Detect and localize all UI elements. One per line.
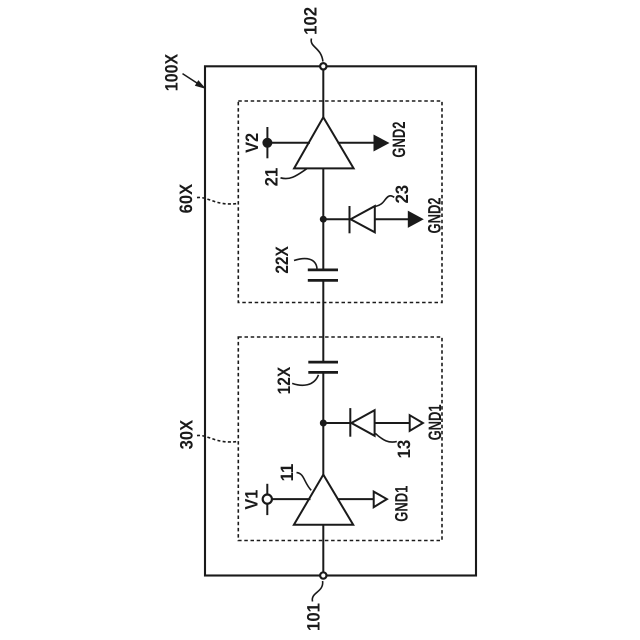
node V2 terminal bar bbox=[266, 127, 268, 158]
node V1 open circle bbox=[263, 495, 272, 504]
terminal 101 bbox=[320, 572, 326, 578]
wire: node B to diode 13 bbox=[323, 422, 350, 424]
svg-text:30X: 30X bbox=[176, 420, 196, 449]
svg-text:11: 11 bbox=[277, 464, 297, 482]
wire: node A to capacitor 22X bbox=[322, 219, 324, 269]
capacitor 12X bbox=[308, 362, 338, 372]
diode 13 cathode bar bbox=[349, 408, 351, 437]
svg-text:12X: 12X bbox=[274, 367, 294, 395]
svg-text:21: 21 bbox=[262, 168, 282, 187]
capacitor 22X bbox=[308, 270, 338, 281]
op-amp 21 bbox=[294, 117, 354, 168]
leader line for label 22X bbox=[294, 259, 317, 269]
leader line for label 11 bbox=[297, 473, 312, 491]
svg-text:102: 102 bbox=[301, 7, 321, 35]
arrow GND1 (open, at op-amp 11) bbox=[374, 492, 387, 508]
node A junction dot bbox=[320, 216, 327, 223]
svg-text:GND2: GND2 bbox=[389, 122, 409, 158]
leader line for label 21 bbox=[281, 169, 308, 179]
svg-text:60X: 60X bbox=[176, 184, 196, 213]
arrow GND2 (filled, at op-amp 21) bbox=[374, 135, 390, 152]
leader line for label 23 bbox=[375, 196, 394, 207]
wire: V1 input to op-amp 11 bbox=[267, 498, 310, 500]
wire: op-amp 21 base to node A bbox=[322, 168, 324, 219]
node V1 terminal bar bbox=[266, 484, 268, 515]
svg-text:V2: V2 bbox=[242, 133, 262, 153]
svg-text:13: 13 bbox=[394, 440, 414, 459]
svg-text:GND2: GND2 bbox=[425, 197, 445, 233]
wire: terminal 102 to op-amp 21 apex bbox=[322, 66, 324, 118]
wire: op-amp 21 output to GND2 arrow bbox=[338, 142, 375, 144]
wire: node A to diode 23 bbox=[323, 218, 349, 220]
arrow GND1 (open, at diode 13) bbox=[410, 415, 423, 431]
wire: op-amp 11 base to terminal 101 bbox=[322, 525, 324, 576]
leader line for label 102 bbox=[311, 39, 323, 62]
wire: V2 input to op-amp 21 bbox=[267, 142, 310, 144]
op-amp 11 bbox=[294, 475, 353, 525]
dashed leader for label 60X bbox=[197, 197, 238, 204]
wire: node B to op-amp 11 apex bbox=[322, 423, 324, 476]
leader line for label 13 bbox=[375, 433, 396, 442]
svg-text:22X: 22X bbox=[272, 246, 292, 274]
node B junction dot bbox=[320, 420, 327, 427]
svg-text:23: 23 bbox=[392, 185, 412, 204]
terminal 102 bbox=[320, 63, 326, 69]
svg-text:GND1: GND1 bbox=[425, 404, 445, 440]
svg-text:100X: 100X bbox=[161, 54, 181, 91]
wire: op-amp 11 output to GND1 arrow bbox=[337, 498, 374, 500]
svg-text:V1: V1 bbox=[242, 490, 262, 510]
svg-text:GND1: GND1 bbox=[392, 486, 412, 522]
node V2 dot bbox=[262, 138, 272, 148]
dashed leader for label 30X bbox=[197, 435, 238, 442]
leader line for label 12X bbox=[292, 375, 318, 385]
diode 23 bbox=[351, 206, 375, 232]
diode 23 cathode bar bbox=[349, 206, 351, 233]
diode 13 bbox=[351, 410, 374, 436]
leader line for label 101 bbox=[312, 581, 322, 602]
outer box 100X bbox=[205, 66, 476, 575]
leader arrow for label 100X bbox=[183, 74, 205, 88]
dashed box 30X bbox=[238, 337, 442, 541]
wire: capacitor 22X to capacitor 12X bbox=[322, 280, 324, 362]
svg-text:101: 101 bbox=[304, 603, 324, 631]
dashed box 60X bbox=[238, 101, 442, 303]
wire: capacitor 12X to node B bbox=[322, 372, 324, 423]
wire: diode 13 to GND1 arrow bbox=[375, 422, 410, 424]
arrow GND2 (filled, at diode 23) bbox=[408, 211, 424, 228]
wire: diode 23 to GND2 arrow bbox=[375, 218, 409, 220]
